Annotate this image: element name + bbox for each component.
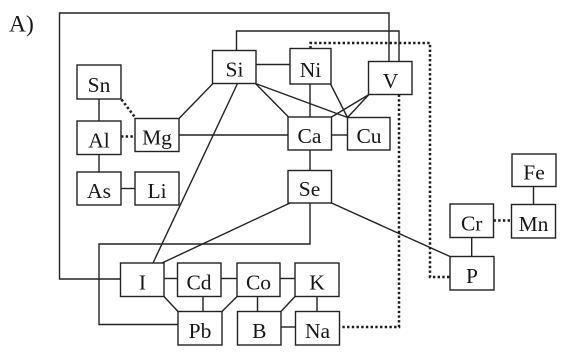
- svg-text:Al: Al: [88, 129, 110, 153]
- node Li: [135, 172, 179, 205]
- svg-text:Co: Co: [246, 271, 271, 295]
- wire Si-Cu: [256, 84, 348, 118]
- wire Co-Pb: [222, 297, 237, 312]
- svg-text:Sn: Sn: [88, 73, 111, 97]
- wire K-B: [281, 297, 295, 312]
- node Cr: [450, 204, 494, 238]
- wire V-Ca: [332, 95, 370, 118]
- node Mg: [135, 119, 179, 152]
- wire Al-Mg dotted: [121, 135, 135, 138]
- svg-text:P: P: [466, 264, 478, 288]
- svg-text:Se: Se: [299, 177, 321, 201]
- wire B-Na: [281, 326, 296, 328]
- svg-text:Cd: Cd: [186, 271, 211, 295]
- wire Sn-Al: [98, 99, 100, 121]
- wire Cd-Co: [221, 278, 237, 280]
- node Fe: [512, 154, 556, 187]
- wire V-Na dotted routed: [340, 95, 400, 328]
- svg-text:A): A): [9, 12, 34, 38]
- wire Cr-Mn dotted: [494, 219, 512, 222]
- wire Si-Ni: [256, 64, 290, 66]
- wire Ni-Cu: [331, 84, 348, 118]
- svg-text:Ni: Ni: [300, 58, 322, 82]
- svg-text:Fe: Fe: [523, 161, 545, 185]
- node Ni: [290, 49, 331, 85]
- svg-text:K: K: [309, 271, 325, 295]
- node Al: [77, 121, 121, 155]
- node I: [121, 263, 165, 297]
- node Se: [288, 171, 332, 204]
- wire V-Cu: [348, 95, 370, 118]
- wire Ca-Cu: [332, 134, 348, 136]
- svg-text:Cu: Cu: [356, 124, 381, 148]
- wire Cr-P: [471, 238, 473, 257]
- node P: [450, 257, 494, 291]
- wire Se-P: [332, 203, 451, 257]
- wire Se-Pb routed left: [99, 203, 310, 325]
- wire Si-V routed top: [237, 31, 400, 62]
- wire I-Pb: [164, 297, 178, 312]
- node Co: [237, 263, 280, 297]
- svg-text:Na: Na: [305, 319, 331, 343]
- wire Si-Mg: [179, 84, 213, 119]
- svg-text:Cr: Cr: [461, 211, 483, 235]
- wire Sn-Mg dotted: [122, 100, 136, 119]
- wire Si-I: [153, 84, 238, 264]
- svg-text:Si: Si: [226, 58, 244, 82]
- wire I-Cd: [164, 278, 178, 280]
- node Pb: [178, 312, 222, 346]
- svg-text:Li: Li: [147, 179, 166, 203]
- node K: [295, 263, 339, 297]
- node Cd: [178, 263, 222, 297]
- wire Se-I: [162, 203, 290, 263]
- svg-text:Pb: Pb: [189, 319, 212, 343]
- node Ca: [288, 117, 332, 150]
- node Cu: [348, 118, 391, 151]
- wire Mg-Ca: [179, 134, 288, 136]
- wire Al-As: [98, 155, 100, 173]
- svg-text:Mg: Mg: [142, 126, 172, 150]
- wire Si-Ca: [256, 84, 289, 118]
- wire Ca-Se: [309, 150, 311, 171]
- node Na: [296, 312, 340, 346]
- node B: [238, 312, 282, 346]
- svg-text:As: As: [87, 179, 111, 203]
- wire Cd-Pb: [202, 297, 204, 312]
- wire V-I routed top/left: [60, 13, 390, 279]
- svg-text:B: B: [252, 319, 266, 343]
- wire Ni-P dotted routed: [311, 43, 451, 277]
- node As: [77, 172, 121, 205]
- svg-text:Ca: Ca: [298, 124, 322, 148]
- wire Fe-Mn: [533, 187, 535, 205]
- svg-text:I: I: [139, 271, 146, 295]
- wire K-Na: [316, 297, 318, 312]
- wire As-Li: [121, 188, 135, 190]
- wire Co-B: [257, 297, 259, 312]
- wire Co-K: [280, 278, 295, 280]
- node Sn: [77, 65, 121, 99]
- node Si: [213, 51, 257, 84]
- node Mn: [512, 205, 556, 239]
- svg-text:V: V: [383, 69, 399, 93]
- wire Ni-Ca: [309, 84, 311, 117]
- svg-text:Mn: Mn: [519, 212, 549, 236]
- node V: [369, 62, 413, 95]
